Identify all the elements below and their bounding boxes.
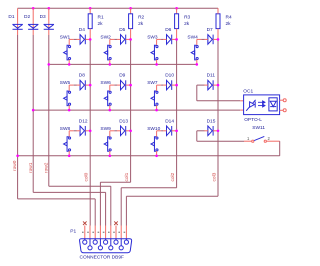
svg-text:1: 1	[247, 136, 250, 141]
wire net row1 horizontal to connector	[33, 191, 105, 193]
wire switch top pin	[68, 39, 70, 45]
svg-text:D9: D9	[119, 73, 125, 79]
svg-text:D2: D2	[24, 14, 30, 20]
svg-text:D10: D10	[165, 73, 174, 79]
wire net col0 vertical to connector	[89, 39, 91, 225]
junction on top bus	[89, 7, 92, 10]
junction D10-col	[175, 84, 178, 87]
svg-text:D12: D12	[79, 118, 88, 124]
junction D9-col	[129, 84, 132, 87]
svg-text:SW7: SW7	[147, 80, 158, 86]
diode D15	[208, 126, 213, 136]
svg-text:row0: row0	[12, 160, 18, 171]
junction D13-col	[129, 130, 132, 133]
svg-text:D13: D13	[119, 118, 128, 124]
diode D5	[121, 35, 126, 45]
svg-text:SW4: SW4	[187, 35, 198, 41]
junction switch-bus	[68, 155, 71, 158]
wire switch top pin	[196, 39, 198, 45]
svg-text:D3: D3	[40, 14, 46, 20]
svg-text:OPTO-L: OPTO-L	[244, 117, 262, 123]
svg-text:D14: D14	[165, 118, 174, 124]
opto-isolator OC1 OPTO-L	[244, 95, 280, 115]
wire switch SW4 top elbow	[197, 38, 202, 40]
wire net row2 vertical	[48, 35, 50, 186]
wire switch SW8 top elbow	[69, 130, 74, 132]
switch SW6	[104, 91, 111, 106]
switch SW7	[151, 91, 158, 106]
junction switch-bus	[109, 155, 112, 158]
junction D4-col	[89, 38, 92, 41]
svg-text:CONNECTOR DB9F: CONNECTOR DB9F	[80, 254, 124, 260]
junction D15-col	[217, 130, 220, 133]
junction bus3-row0	[16, 155, 19, 158]
wire net row0 drop to connector	[94, 199, 96, 226]
wire corner into R4	[217, 8, 219, 14]
wire row bus 3	[18, 155, 280, 157]
wire switch bottom pin	[109, 60, 111, 65]
svg-text:SW3: SW3	[147, 35, 158, 41]
svg-text:2k: 2k	[226, 21, 232, 27]
svg-text:SW6: SW6	[100, 80, 111, 86]
svg-text:SW5: SW5	[60, 80, 71, 86]
wire pin stub opto pin2	[240, 109, 243, 111]
wire	[74, 130, 77, 132]
diode D9	[121, 80, 126, 90]
svg-text:SW11: SW11	[252, 125, 265, 131]
wire switch SW3 top elbow	[157, 38, 162, 40]
junction D11-col	[217, 84, 220, 87]
svg-text:D8: D8	[79, 73, 85, 79]
opto output pins	[280, 99, 284, 101]
diode D4	[80, 35, 85, 45]
wire switch bottom pin	[68, 151, 70, 156]
wire net col2 vertical	[176, 39, 178, 187]
svg-text:row1: row1	[28, 162, 34, 173]
svg-text:OC1: OC1	[243, 88, 253, 94]
junction bus1-row2	[48, 63, 51, 66]
wire switch bottom pin	[156, 151, 158, 156]
wire D11 anode feed	[197, 84, 205, 86]
wire net row2 horizontal to connector	[49, 185, 111, 187]
connector P1 DB9F	[84, 226, 86, 239]
DB9 pin holes	[84, 239, 86, 240]
diode D6	[167, 35, 172, 45]
wire net col1 vertical	[130, 39, 132, 182]
switch SW4	[191, 45, 198, 60]
wire switch top pin	[68, 85, 70, 91]
wire net col1 horizontal to connector	[100, 181, 130, 183]
wire net col2 horizontal to connector	[121, 187, 176, 189]
wire net row0 vertical	[17, 35, 19, 199]
svg-text:R2: R2	[138, 15, 144, 21]
junction D7-col	[217, 38, 220, 41]
svg-text:2k: 2k	[184, 21, 190, 27]
switch SW1	[64, 45, 71, 60]
wire to opto pin1	[197, 100, 240, 102]
junction switch-bus	[155, 109, 158, 112]
no-ERC marker at pin 84.8	[83, 221, 87, 225]
wire	[74, 84, 77, 86]
svg-text:row2: row2	[43, 162, 49, 173]
junction on top bus	[32, 7, 35, 10]
wire net row1 drop to connector	[105, 192, 107, 225]
wire switch top pin	[109, 85, 111, 91]
wire switch bottom pin	[109, 105, 111, 110]
switch SW2	[104, 45, 111, 60]
wire switch bottom pin	[109, 151, 111, 156]
wire row bus 2	[33, 109, 240, 111]
wire switch top pin	[156, 131, 158, 137]
svg-text:D1: D1	[8, 14, 14, 20]
wire switch bottom pin	[156, 105, 158, 110]
svg-text:D4: D4	[79, 27, 85, 33]
wire	[201, 38, 204, 40]
wire net row0 horizontal to connector	[18, 198, 96, 200]
svg-text:R1: R1	[98, 15, 104, 21]
wire switch SW1 top elbow	[69, 38, 74, 40]
resistor R2 2k	[130, 8, 132, 14]
junction switch-bus	[196, 63, 199, 66]
svg-text:col3: col3	[212, 172, 218, 181]
svg-text:D6: D6	[165, 27, 171, 33]
switch SW11	[252, 140, 254, 142]
wire switch SW7 top elbow	[157, 84, 162, 86]
no-ERC marker at pin 116.0	[114, 221, 118, 225]
wire D15 anode feed	[197, 130, 205, 132]
wire	[114, 84, 117, 86]
svg-text:D7: D7	[207, 27, 213, 33]
wire pin stub through D1	[17, 8, 19, 35]
wire switch SW2 top elbow	[110, 38, 115, 40]
wire net col3 drop to connector	[125, 196, 127, 225]
wire net col1 drop to connector	[99, 182, 101, 225]
svg-text:D11: D11	[207, 73, 216, 79]
pin number marks	[82, 231, 84, 233]
svg-text:2k: 2k	[138, 21, 144, 27]
wire net col3 vertical	[217, 39, 219, 196]
svg-text:2: 2	[268, 136, 271, 141]
wire switch SW10 top elbow	[157, 130, 162, 132]
wire switch top pin	[68, 131, 70, 137]
wire	[114, 130, 117, 132]
svg-text:P1: P1	[70, 229, 76, 235]
wire switch bottom pin	[156, 60, 158, 65]
wire pin stub through D2	[32, 8, 34, 35]
diode D14	[167, 126, 172, 136]
svg-text:SW8: SW8	[60, 126, 71, 132]
wire	[161, 130, 163, 132]
junction switch-bus	[109, 63, 112, 66]
junction on top bus	[129, 7, 132, 10]
wire D15 anode drop	[196, 131, 198, 141]
wire pin stub SW11 pin1	[244, 140, 252, 142]
svg-text:D5: D5	[119, 27, 125, 33]
wire to SW11 pin1	[197, 140, 244, 142]
wire SW11 return drop	[279, 141, 281, 156]
resistor R4 2k	[217, 8, 219, 14]
wire D11 anode drop	[196, 85, 198, 101]
wire net col3 horizontal to connector	[126, 195, 218, 197]
svg-text:2k: 2k	[98, 21, 104, 27]
diode D2	[28, 24, 38, 29]
diode D1	[13, 24, 23, 29]
wire pin stub through D3	[48, 8, 50, 35]
wire switch top pin	[109, 39, 111, 45]
diode D8	[80, 80, 85, 90]
junction D8-col	[89, 84, 92, 87]
wire net col2 drop to connector	[120, 188, 122, 226]
diode D12	[80, 126, 85, 136]
wire switch SW5 top elbow	[69, 84, 74, 86]
wire switch SW9 top elbow	[110, 130, 115, 132]
diode D11	[208, 80, 213, 90]
junction D6-col	[175, 38, 178, 41]
wire SW11 pin2 stub	[267, 140, 280, 142]
svg-text:SW1: SW1	[60, 35, 71, 41]
switch SW3	[151, 45, 158, 60]
svg-text:SW10: SW10	[147, 126, 160, 132]
diode D7	[208, 35, 213, 45]
junction switch-bus	[155, 63, 158, 66]
switch SW8	[64, 137, 71, 152]
wire	[161, 84, 163, 86]
junction switch-bus	[109, 109, 112, 112]
junction on top bus	[48, 7, 51, 10]
junction D14-col	[175, 130, 178, 133]
svg-text:col2: col2	[170, 172, 176, 181]
diode D3	[44, 24, 54, 29]
resistor R1 2k	[89, 8, 91, 14]
DB9 body	[80, 239, 132, 253]
junction D5-col	[129, 38, 132, 41]
junction on top bus	[175, 7, 178, 10]
svg-text:D15: D15	[207, 118, 216, 124]
junction D12-col	[89, 130, 92, 133]
switch SW9	[104, 137, 111, 152]
svg-text:SW9: SW9	[100, 126, 111, 132]
wire switch bottom pin	[196, 60, 198, 65]
wire switch top pin	[156, 39, 158, 45]
junction switch-bus	[155, 155, 158, 158]
wire switch top pin	[156, 85, 158, 91]
diode D13	[121, 126, 126, 136]
wire top supply bus	[18, 7, 218, 9]
switch SW5	[64, 91, 71, 106]
svg-text:R4: R4	[226, 15, 232, 21]
diode D10	[167, 80, 172, 90]
wire row bus 1	[49, 63, 197, 65]
wire switch bottom pin	[68, 105, 70, 110]
switch SW10	[151, 137, 158, 152]
svg-text:SW2: SW2	[100, 35, 111, 41]
junction switch-bus	[68, 63, 71, 66]
wire switch bottom pin	[68, 60, 70, 65]
svg-text:col0: col0	[84, 172, 90, 181]
svg-text:col1: col1	[124, 172, 130, 181]
junction switch-bus	[68, 109, 71, 112]
wire switch top pin	[109, 131, 111, 137]
wire net row2 drop to connector	[110, 186, 112, 225]
wire	[161, 38, 163, 40]
wire pin stub opto pin1	[240, 100, 243, 102]
junction bus2-row1	[32, 109, 35, 112]
resistor R3 2k	[176, 8, 178, 14]
wire switch SW6 top elbow	[110, 84, 115, 86]
wire	[114, 38, 117, 40]
wire net row1 vertical	[32, 35, 34, 192]
wire	[74, 38, 77, 40]
svg-text:R3: R3	[184, 15, 190, 21]
